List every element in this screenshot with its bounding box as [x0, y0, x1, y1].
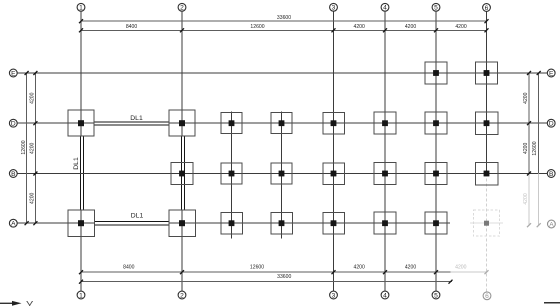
svg-text:4200: 4200 [523, 142, 529, 153]
svg-text:33600: 33600 [277, 274, 291, 280]
svg-text:12600: 12600 [532, 141, 538, 155]
svg-text:6: 6 [485, 293, 489, 300]
svg-text:5: 5 [434, 292, 438, 299]
svg-text:2: 2 [180, 5, 184, 12]
svg-text:DL1: DL1 [131, 212, 144, 219]
svg-text:2: 2 [180, 292, 184, 299]
svg-text:6: 6 [485, 5, 489, 12]
svg-text:4: 4 [383, 292, 387, 299]
svg-text:4200: 4200 [30, 192, 36, 203]
svg-text:5: 5 [434, 5, 438, 12]
svg-text:DL1: DL1 [130, 115, 143, 122]
svg-text:33600: 33600 [277, 15, 291, 21]
svg-text:D: D [11, 121, 16, 128]
svg-text:4200: 4200 [523, 193, 529, 204]
svg-text:4200: 4200 [354, 264, 365, 270]
svg-text:4200: 4200 [354, 24, 365, 30]
svg-text:DL1: DL1 [73, 157, 80, 170]
svg-text:12600: 12600 [21, 140, 27, 154]
svg-text:12600: 12600 [250, 264, 264, 270]
svg-text:A: A [11, 221, 16, 228]
svg-text:4200: 4200 [30, 92, 36, 103]
svg-text:4200: 4200 [455, 24, 466, 30]
svg-text:12600: 12600 [250, 24, 264, 30]
svg-text:1: 1 [79, 292, 83, 299]
svg-text:4200: 4200 [30, 142, 36, 153]
svg-text:4200: 4200 [523, 92, 529, 103]
svg-text:D: D [549, 121, 554, 128]
svg-text:A: A [549, 221, 554, 228]
svg-text:4200: 4200 [455, 264, 466, 270]
svg-text:1: 1 [79, 5, 83, 12]
svg-text:B: B [549, 171, 554, 178]
svg-text:4200: 4200 [405, 24, 416, 30]
svg-text:Y: Y [26, 300, 34, 306]
svg-text:4200: 4200 [405, 264, 416, 270]
svg-text:3: 3 [332, 5, 336, 12]
svg-text:8400: 8400 [126, 24, 137, 30]
svg-text:B: B [11, 171, 16, 178]
svg-text:E: E [11, 70, 16, 77]
svg-text:4: 4 [383, 5, 387, 12]
svg-text:3: 3 [332, 292, 336, 299]
svg-text:8400: 8400 [123, 264, 134, 270]
svg-text:E: E [549, 70, 554, 77]
